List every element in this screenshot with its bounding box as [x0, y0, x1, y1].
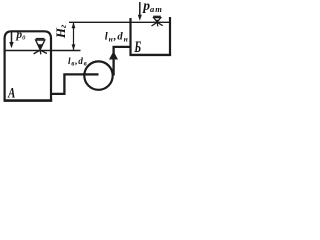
svg-text:lн,dн: lн,dн [105, 32, 129, 44]
discharge pipe [114, 47, 131, 76]
discharge arrowhead [109, 51, 118, 59]
arrow p0 [9, 32, 13, 49]
pump circle [84, 61, 112, 89]
dimension line Hg [72, 22, 76, 50]
water level line tank A [5, 50, 81, 52]
tank B bottom [130, 54, 172, 56]
tank B left wall [129, 18, 131, 56]
water level mark tank B [152, 16, 163, 26]
top reference line / tank B water level [69, 21, 170, 23]
svg-text:Б: Б [134, 39, 142, 56]
svg-text:A: A [7, 86, 15, 102]
suction line into pump center [83, 73, 99, 75]
tank A shell [5, 31, 51, 101]
tank B right wall [169, 17, 171, 56]
tank A bottom [4, 99, 53, 102]
arrow p_atm [138, 2, 142, 21]
suction pipe [52, 74, 99, 94]
water level mark tank A [34, 39, 47, 55]
